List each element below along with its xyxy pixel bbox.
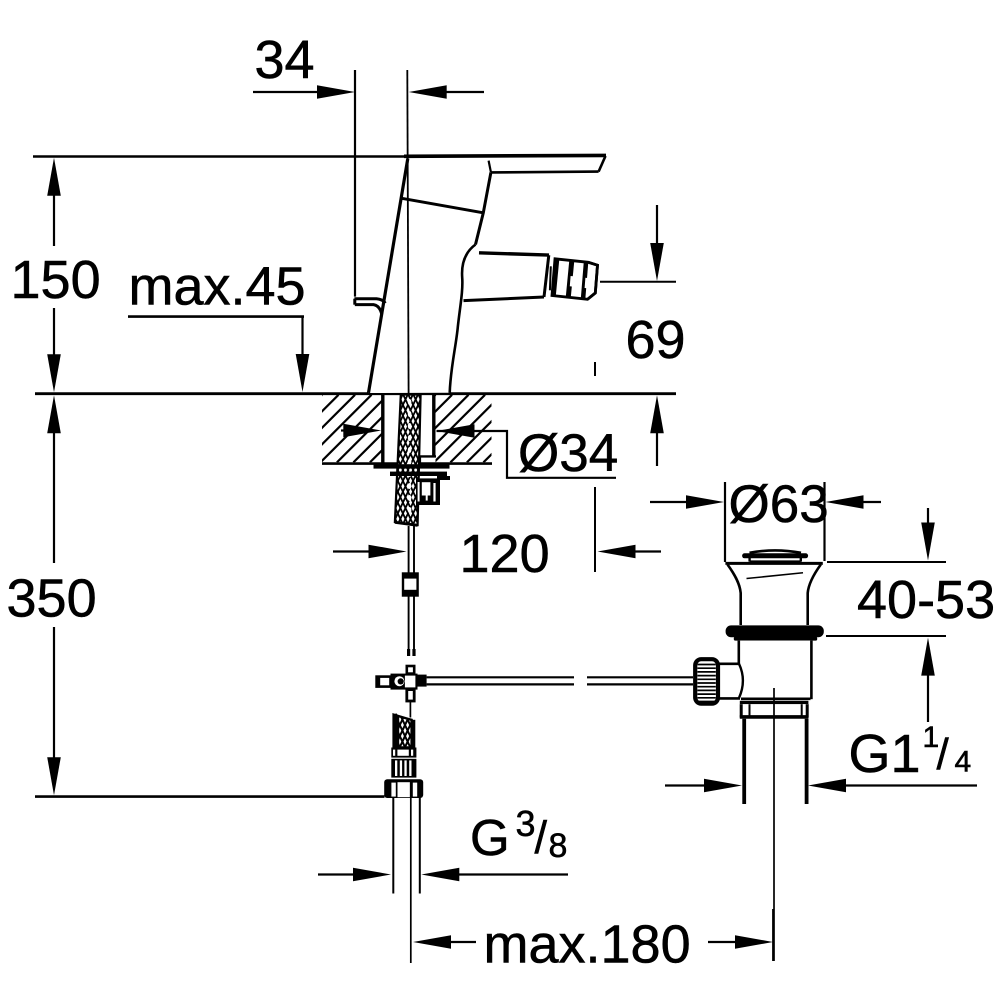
svg-text:/: / [937,730,950,779]
svg-text:34: 34 [255,30,315,90]
svg-text:/: / [535,812,548,863]
svg-text:150: 150 [11,250,101,310]
svg-text:40-53: 40-53 [857,570,995,630]
svg-text:max.180: max.180 [484,915,691,975]
svg-text:69: 69 [626,310,686,370]
svg-text:3: 3 [516,803,536,844]
svg-text:G: G [470,809,510,866]
svg-text:120: 120 [460,524,550,584]
svg-text:8: 8 [549,827,568,865]
svg-text:G1: G1 [849,724,921,784]
svg-text:max.45: max.45 [129,257,306,317]
svg-text:350: 350 [7,569,97,629]
svg-text:4: 4 [955,746,972,779]
svg-text:Ø63: Ø63 [729,475,829,534]
svg-text:Ø34: Ø34 [518,424,618,483]
